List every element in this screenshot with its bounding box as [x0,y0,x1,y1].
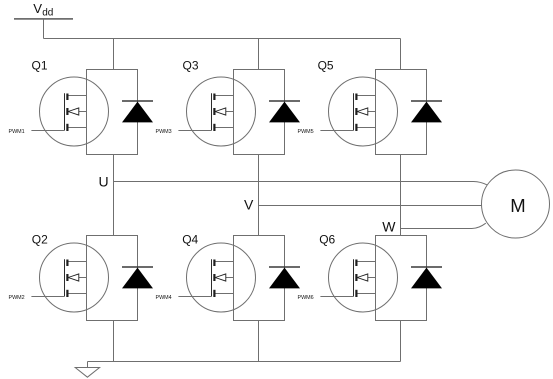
diode D4 [269,267,300,288]
svg-text:PWM2: PWM2 [9,295,25,301]
svg-text:Q5: Q5 [318,58,334,72]
wire leg 3 to ground bus [400,321,402,362]
wire leg 2 to ground bus [258,321,260,362]
wire leg 1 to ground bus [113,321,115,362]
wire phase node leg 2 vertical [258,155,260,236]
svg-text:PWM6: PWM6 [298,295,314,301]
transistor Q3 (N-MOSFET) [187,77,256,146]
transistor Q5 (N-MOSFET) [329,77,398,146]
wire phase W [401,223,486,228]
transistor Q1 (N-MOSFET) [40,77,109,146]
wire drop Vdd bus to leg 3 [400,39,402,70]
wire gate PWM1 [31,130,64,132]
wire Vdd stub [43,20,45,39]
power rail Vdd bar [14,18,73,20]
svg-text:M: M [510,195,525,216]
wire gate PWM5 [320,130,353,132]
wire phase U [114,182,488,186]
wire parallel loop Q1 box [87,70,138,155]
svg-text:dd: dd [42,7,53,18]
svg-text:Q1: Q1 [32,58,48,72]
wire gate PWM2 [31,296,64,298]
wire parallel loop Q6 box [376,236,427,321]
wire parallel loop Q4 box [234,236,285,321]
diode D1 [122,101,153,122]
svg-text:Q2: Q2 [32,232,48,246]
wire phase node leg 1 vertical [113,155,115,236]
wire gate PWM4 [178,296,211,298]
wire parallel loop Q3 box [234,70,285,155]
svg-text:PWM3: PWM3 [156,129,172,135]
diode D6 [411,267,442,288]
svg-text:V: V [244,196,254,212]
diode D3 [269,101,300,122]
wire phase V [259,205,483,207]
wire ground bus [88,361,401,363]
svg-text:U: U [99,173,109,189]
svg-text:PWM5: PWM5 [298,129,314,135]
diode D5 [411,101,442,122]
svg-text:V: V [33,1,42,16]
wire parallel loop Q2 box [87,236,138,321]
ground symbol [75,368,99,378]
net label Vdd [33,1,53,18]
transistor Q2 (N-MOSFET) [40,243,109,312]
transistor Q6 (N-MOSFET) [329,243,398,312]
diode D2 [122,267,153,288]
wire parallel loop Q5 box [376,70,427,155]
svg-text:Q3: Q3 [183,58,199,72]
motor M [482,170,550,238]
svg-text:W: W [382,219,396,235]
svg-text:PWM1: PWM1 [9,129,25,135]
transistor Q4 (N-MOSFET) [187,243,256,312]
wire drop Vdd bus to leg 2 [258,39,260,70]
wire drop Vdd bus to leg 1 [113,39,115,70]
svg-text:Q4: Q4 [182,232,198,246]
svg-text:PWM4: PWM4 [156,295,172,301]
wire gate PWM3 [178,130,211,132]
wire top Vdd bus [44,38,401,40]
wire phase node leg 3 vertical [400,155,402,236]
svg-text:Q6: Q6 [319,232,335,246]
wire ground stub [87,362,89,368]
wire gate PWM6 [320,296,353,298]
